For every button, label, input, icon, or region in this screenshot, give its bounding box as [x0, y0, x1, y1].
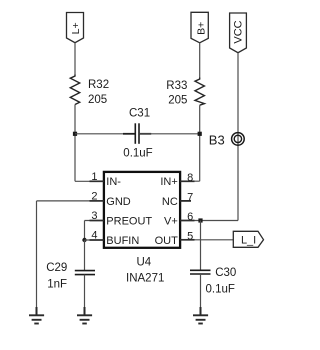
wire C29 to ground [84, 275, 86, 316]
wire down to left ground [36, 201, 38, 315]
capacitor C30 [190, 270, 211, 274]
pin 8 stub [180, 180, 194, 182]
svg-text:6: 6 [187, 211, 193, 223]
wire R33 to junction [199, 105, 201, 181]
svg-text:5: 5 [187, 231, 193, 243]
net label L_I [233, 231, 263, 247]
wire junction to pin 4 BUFIN [85, 239, 104, 241]
op-amp U4 body [104, 172, 180, 248]
svg-text:R32: R32 [88, 79, 109, 91]
svg-text:INA271: INA271 [126, 272, 164, 284]
connector L+ [67, 13, 84, 43]
svg-text:205: 205 [168, 94, 187, 106]
wire C31 right plate to B+ branch [139, 133, 200, 135]
svg-text:0.1uF: 0.1uF [206, 284, 235, 296]
wire pin 2 GND left [37, 200, 104, 202]
wire B+ to R33 [199, 43, 201, 78]
wire junction down to C30 [200, 221, 202, 271]
svg-text:R33: R33 [166, 80, 187, 92]
svg-text:PREOUT: PREOUT [106, 216, 152, 228]
svg-text:OUT: OUT [155, 235, 179, 247]
pin 6 stub [180, 220, 194, 222]
svg-text:IN+: IN+ [160, 176, 177, 188]
svg-text:V+: V+ [164, 216, 178, 228]
wire VCC row to pin 6 [180, 220, 238, 222]
wire junction down to C29 [84, 240, 86, 271]
wire PREOUT down to BUFIN [84, 221, 86, 241]
svg-text:7: 7 [187, 191, 193, 203]
wire L+ to R32 [74, 43, 76, 75]
svg-text:NC: NC [162, 196, 178, 208]
pin 1 stub [90, 180, 104, 182]
svg-text:L_I: L_I [241, 235, 256, 247]
svg-text:B+: B+ [196, 22, 208, 35]
svg-text:U4: U4 [137, 256, 152, 268]
ground for GND pin [29, 307, 44, 324]
junction at BUFIN/C29 node [82, 238, 86, 242]
ground for C29 [77, 307, 92, 324]
svg-text:0.1uF: 0.1uF [123, 148, 152, 160]
junction at V+/C30 node [198, 218, 202, 222]
wire C30 to ground [200, 274, 202, 315]
ground for C30 [193, 307, 208, 324]
svg-text:2: 2 [91, 191, 97, 203]
capacitor C31 [123, 123, 151, 144]
svg-text:1: 1 [91, 171, 97, 183]
svg-text:B3: B3 [209, 132, 225, 147]
pin 2 stub [90, 200, 104, 202]
resistor R32 [70, 75, 79, 105]
wire VCC down through B3 to V+ row [237, 53, 239, 221]
pin 4 stub [90, 239, 104, 241]
resistor R33 [195, 78, 204, 106]
svg-text:1nF: 1nF [47, 279, 67, 291]
svg-text:BUFIN: BUFIN [106, 235, 139, 247]
wire to pin 8 [180, 180, 200, 182]
wire pin 3 PREOUT left [85, 220, 104, 222]
svg-text:L+: L+ [70, 22, 82, 34]
connector B+ [191, 12, 208, 43]
wire pin 5 OUT to L_I flag [180, 239, 233, 241]
svg-text:4: 4 [91, 230, 97, 242]
svg-text:VCC: VCC [233, 20, 245, 43]
svg-text:IN-: IN- [106, 176, 121, 188]
pin 3 stub [90, 220, 104, 222]
svg-text:205: 205 [88, 94, 107, 106]
pin 5 stub [180, 239, 194, 241]
wire R32 to IN- [74, 105, 76, 182]
junction at R32/C31 node [73, 132, 77, 136]
power symbol VCC [230, 13, 247, 53]
wire R32 node to pin 1 [75, 180, 103, 182]
svg-text:3: 3 [91, 210, 97, 222]
capacitor C29 [75, 271, 95, 275]
test point B3 [232, 133, 245, 146]
junction at R33/C31 node [198, 132, 202, 136]
svg-text:8: 8 [187, 172, 193, 184]
svg-text:C31: C31 [129, 107, 150, 119]
wire junction to C31 left plate [75, 133, 135, 135]
svg-text:C29: C29 [46, 262, 67, 274]
svg-text:C30: C30 [215, 267, 236, 279]
pin 7 stub [180, 200, 191, 202]
svg-text:GND: GND [106, 196, 131, 208]
